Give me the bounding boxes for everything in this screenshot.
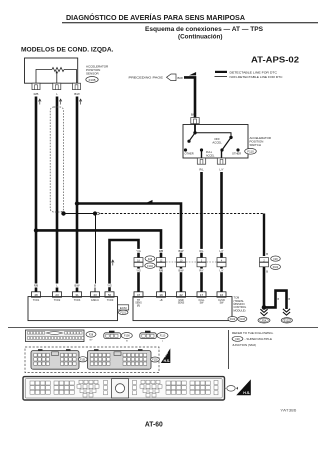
- sensor pin 1 connector: [32, 83, 40, 89]
- ECM terminal 48: [32, 292, 41, 297]
- svg-text:R/B: R/B: [159, 269, 164, 273]
- svg-text:R/B: R/B: [34, 92, 39, 96]
- svg-text:SENS: SENS: [178, 302, 185, 305]
- smj oval id: [86, 332, 96, 342]
- switch output connector 2: [217, 158, 225, 164]
- switch input connector: [191, 118, 199, 124]
- switch label text: [250, 136, 271, 147]
- ground oval 1: [258, 318, 270, 323]
- switch inner bus: [195, 133, 231, 138]
- refer note divider: [228, 330, 230, 369]
- signal arrow up: [59, 99, 62, 105]
- sensor connector id oval F108: [86, 77, 98, 83]
- pin strip I: [214, 380, 218, 394]
- TCM module label: [234, 296, 247, 313]
- wire B branch to second ground: [264, 291, 287, 309]
- svg-text:GND-C: GND-C: [91, 299, 99, 302]
- wire R/L to TCM: [200, 172, 203, 258]
- svg-text:H.S.: H.S.: [164, 359, 170, 363]
- refer note text: [232, 331, 274, 347]
- node: ground junction: [262, 305, 267, 310]
- right switch lever: [222, 137, 231, 150]
- svg-text:Esquema de conexiones — AT — T: Esquema de conexiones — AT — TPS: [145, 26, 264, 33]
- left switch lever: [189, 133, 195, 141]
- switch output connector 1: [197, 158, 205, 164]
- node: left lever tip: [187, 140, 190, 143]
- node: right lever tip on closed contact: [220, 148, 223, 151]
- ECM terminal 50: [105, 292, 114, 297]
- pin strip E: [133, 380, 137, 394]
- svg-text:B/W: B/W: [75, 284, 80, 288]
- resistor (potentiometer track): [52, 68, 64, 72]
- svg-text:R/L: R/L: [199, 249, 204, 253]
- svg-text:B/W: B/W: [179, 269, 184, 273]
- svg-text:B/W: B/W: [179, 249, 184, 253]
- svg-text:PRECEDING PAGE: PRECEDING PAGE: [129, 75, 163, 79]
- signal arrow up: [79, 99, 82, 105]
- dash links between connector pins: [166, 261, 217, 263]
- svg-text:B/W: B/W: [74, 92, 80, 96]
- svg-text:JUNCTION (SMJ): JUNCTION (SMJ): [232, 343, 256, 347]
- HS triangle logo row2: [161, 348, 171, 363]
- left other contact: [184, 148, 187, 151]
- inline connector pin 3: [177, 258, 186, 267]
- signal arrow down: [112, 260, 115, 266]
- tcm face oval: [151, 357, 160, 362]
- pin block F scattered: [140, 380, 162, 397]
- legend non-detectable line: [215, 75, 284, 79]
- ecm connector face left: [31, 349, 79, 369]
- ECM wire stubs to terminals: [36, 288, 95, 292]
- svg-text:AT-60: AT-60: [145, 419, 163, 428]
- svg-text:OTHER: OTHER: [185, 152, 194, 156]
- full accel contact: [200, 148, 203, 151]
- svg-text:F102: F102: [147, 265, 153, 268]
- TCM pin name FULL SW: [199, 299, 206, 305]
- subtitle: Esquema de conexiones AT TPS: [145, 26, 264, 41]
- stem full accel to output: [201, 150, 203, 158]
- svg-text:AT-APS-02: AT-APS-02: [251, 56, 300, 65]
- wire R/B branch to TCM: [36, 230, 161, 257]
- pin block B: [54, 381, 74, 394]
- svg-text:F101: F101: [80, 358, 86, 361]
- pin strip D: [104, 380, 108, 394]
- sensor pin 2 connector: [53, 83, 61, 89]
- ECM tag: [118, 305, 129, 315]
- label FULL ACCEL: [206, 151, 215, 157]
- svg-text:R/B: R/B: [34, 284, 39, 288]
- svg-text:F123: F123: [284, 319, 290, 322]
- svg-text:F102: F102: [273, 266, 279, 269]
- svg-text:(R): (R): [137, 305, 141, 308]
- svg-text:Y/G: Y/G: [107, 284, 111, 288]
- header rule: [62, 22, 318, 24]
- pin block G: [166, 381, 186, 394]
- svg-text:F28: F28: [235, 338, 240, 341]
- wire B to ground junction: [263, 267, 266, 307]
- wire L sensor to ECM TVO2: [56, 97, 59, 284]
- svg-text:B/W: B/W: [178, 76, 184, 80]
- right other contact: [236, 148, 239, 151]
- svg-text:REFER TO THE FOLLOWING.: REFER TO THE FOLLOWING.: [232, 331, 274, 335]
- svg-text:GY: GY: [89, 340, 93, 342]
- TCM connector ovals: [228, 317, 247, 322]
- svg-text:B/W: B/W: [191, 113, 197, 117]
- svg-text:TVO1: TVO1: [33, 299, 40, 302]
- svg-text:F102: F102: [230, 318, 236, 321]
- svg-text:H.S.: H.S.: [243, 391, 250, 395]
- svg-text:Y/G: Y/G: [136, 249, 140, 253]
- dashed group box: [25, 347, 159, 373]
- inline connector pin 1: [134, 258, 143, 267]
- ECM terminal 31: [73, 292, 82, 297]
- ECM box: [28, 297, 118, 321]
- ground symbol 1: [260, 307, 267, 315]
- svg-text:(Continuación): (Continuación): [178, 33, 223, 40]
- wire R/B sensor to ECM TVO1: [35, 97, 38, 284]
- wire Y/G ECM TVO0 up and over to TCM: [110, 240, 139, 291]
- svg-text:Y/G: Y/G: [136, 269, 140, 273]
- svg-text:TVO0: TVO0: [107, 299, 114, 302]
- svg-text:ACCEL: ACCEL: [212, 141, 222, 145]
- TCM terminal 42: [177, 292, 186, 297]
- TCM terminal 47: [134, 292, 143, 297]
- node: switch common: [193, 131, 196, 134]
- TCM pin name TH SENS: [135, 299, 142, 308]
- TCM terminal 19: [157, 292, 166, 297]
- svg-text:F108: F108: [124, 335, 130, 338]
- wire B/W branch to TCM GND: [77, 204, 181, 258]
- wire B dashed to body ground drop: [101, 213, 264, 215]
- accelerator position sensor box: [25, 58, 78, 83]
- switch common stub: [194, 124, 196, 133]
- wire B/W sensor to ECM TVO3: [76, 97, 79, 284]
- svg-text:DIAGNÓSTICO DE AVERÍAS PARA SE: DIAGNÓSTICO DE AVERÍAS PARA SENS MARIPOS…: [66, 13, 245, 22]
- svg-text:YAT386: YAT386: [280, 408, 296, 412]
- svg-text:ECM: ECM: [120, 306, 127, 310]
- svg-text:F108: F108: [89, 78, 96, 82]
- node: R/B junction: [34, 228, 38, 232]
- svg-text:L/Y: L/Y: [220, 249, 224, 253]
- inline connector pin 4: [197, 258, 206, 267]
- switch connector id oval F110: [245, 148, 257, 154]
- svg-text:F54: F54: [262, 319, 267, 322]
- node: gnd branch junction: [93, 211, 97, 215]
- svg-text:F28: F28: [273, 258, 278, 261]
- node: shield drain junction: [61, 211, 65, 215]
- svg-text:+B: +B: [160, 299, 163, 302]
- accelerator position switch box: [183, 125, 248, 159]
- ECM terminal 43: [91, 292, 100, 297]
- ovals F28 F102 on ground wire: [271, 256, 281, 269]
- svg-text:B: B: [266, 252, 268, 256]
- preceding page arrow: [167, 74, 177, 81]
- inline connector pin 5: [217, 258, 226, 267]
- svg-text:R/B: R/B: [159, 249, 164, 253]
- pin block C scattered: [77, 380, 99, 397]
- node: right lever pivot: [229, 136, 232, 139]
- svg-text:B: B: [266, 270, 268, 274]
- ECM wire labels: [32, 284, 114, 288]
- svg-text:OTHER: OTHER: [232, 152, 241, 156]
- tcm connector face right: [88, 349, 152, 369]
- svg-text:SENSOR: SENSOR: [86, 72, 100, 76]
- svg-text:MODELOS DE COND. IZQDA.: MODELOS DE COND. IZQDA.: [21, 47, 114, 54]
- svg-text:F28: F28: [89, 334, 94, 337]
- sensor internal wire left: [36, 70, 52, 84]
- page-continuation half arrow: [189, 72, 196, 75]
- svg-text:L/Y: L/Y: [220, 269, 224, 273]
- ground oval 2: [281, 318, 292, 323]
- wire B ground drop: [263, 214, 265, 257]
- HS triangle logo row3: [236, 379, 251, 395]
- inline connector pin 2: [157, 258, 166, 267]
- wire labels below inline connectors: [135, 269, 226, 273]
- sensor internal wire right: [64, 70, 77, 84]
- wire segments below inline connectors: [139, 267, 222, 292]
- sensor connector face F108: [104, 331, 121, 339]
- svg-text:NON-DETECTABLE LINE FOR DTC: NON-DETECTABLE LINE FOR DTC: [230, 75, 284, 79]
- svg-text:TVO2: TVO2: [54, 299, 61, 302]
- label OFF ACCEL: [212, 137, 222, 145]
- svg-text:MODULE): MODULE): [234, 308, 246, 312]
- svg-text:ACCEL: ACCEL: [206, 154, 215, 157]
- signal arrow up: [39, 99, 42, 105]
- small arrow on gnd line: [97, 212, 100, 215]
- title: DIAGNOSTICO DE AVERIAS PARA SENS MARIPOSA: [66, 13, 245, 22]
- node: B/W junction at sensor ground: [75, 201, 79, 205]
- svg-text:R/L: R/L: [199, 168, 204, 172]
- svg-text:- SUPER MULTIPLE: - SUPER MULTIPLE: [245, 337, 272, 341]
- switch face oval id: [157, 333, 168, 343]
- smj ovals F28 F102: [145, 256, 155, 268]
- TCM terminal 16: [217, 292, 226, 297]
- svg-text:DETECTABLE LINE FOR DTC: DETECTABLE LINE FOR DTC: [230, 70, 278, 74]
- svg-text:L/Y: L/Y: [219, 168, 223, 172]
- wire B/W from preceding page: [184, 77, 195, 117]
- svg-text:TVO3: TVO3: [74, 299, 81, 302]
- svg-text:F103: F103: [240, 318, 246, 321]
- svg-text:SWITCH: SWITCH: [250, 143, 261, 147]
- svg-text:B: B: [94, 284, 96, 288]
- TCM pin name CLSD SW: [218, 299, 225, 305]
- pin block A: [30, 381, 50, 394]
- sensor face oval id: [121, 333, 132, 343]
- direction half arrow on branch: [146, 200, 153, 203]
- label B: [266, 252, 269, 255]
- shield (dashed) around wire L: [50, 107, 63, 212]
- TCM box: [133, 297, 232, 321]
- ecm face oval: [78, 357, 87, 362]
- svg-text:F28: F28: [148, 258, 153, 261]
- inline connector on ground wire: [260, 258, 269, 267]
- svg-text:R/Y: R/Y: [199, 269, 204, 273]
- sensor pin 3 connector: [73, 83, 81, 89]
- wire L/Y to TCM: [220, 172, 223, 258]
- svg-text:F102: F102: [152, 359, 158, 362]
- legend detectable line: [215, 70, 278, 74]
- switch connector face F110: [140, 331, 157, 339]
- center bolt box: [112, 379, 129, 398]
- wire B to ECM GND-C: [95, 214, 97, 284]
- potentiometer wiper arrow: [56, 70, 58, 83]
- ground symbol 2: [283, 309, 290, 312]
- separator rule: [8, 327, 318, 329]
- view symbol: [224, 386, 238, 392]
- svg-text:F110: F110: [247, 150, 254, 154]
- TCM pin name GND SENS: [178, 299, 185, 305]
- wire B shield to ECM gnd branch: [64, 213, 96, 215]
- smj connector face: [26, 330, 85, 342]
- svg-text:F101: F101: [120, 312, 126, 315]
- stem to output: [221, 150, 223, 158]
- TCM terminal 17: [197, 292, 206, 297]
- sensor label text: [86, 65, 109, 76]
- pin block H: [190, 381, 210, 394]
- ECM terminal 23: [53, 292, 62, 297]
- tcm main connector view: [23, 377, 225, 400]
- svg-text:F110: F110: [160, 335, 166, 338]
- wire labels above inline connectors: [135, 249, 226, 253]
